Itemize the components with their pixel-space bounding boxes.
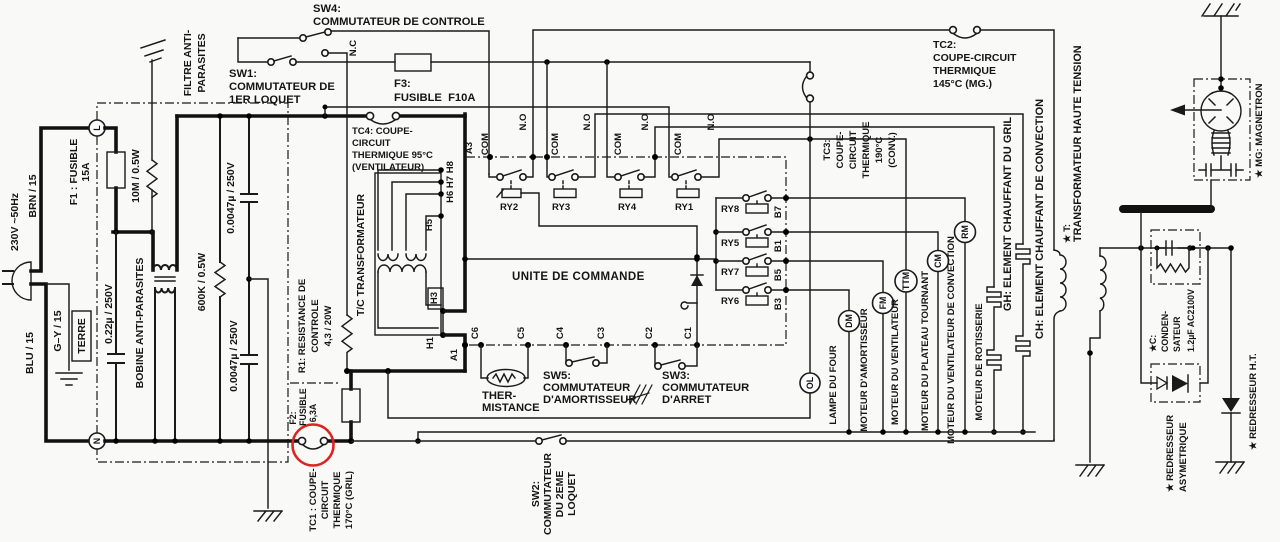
T/C internal taps H8 H7 H6 H5	[378, 170, 441, 250]
svg-text:COMMUTATEUR: COMMUTATEUR	[542, 453, 554, 535]
motor DM damper motor	[848, 332, 850, 432]
filament heavy lead	[1123, 205, 1211, 213]
svg-text:THERMIQUE 95°C: THERMIQUE 95°C	[352, 150, 433, 161]
svg-text:RY5: RY5	[721, 238, 740, 249]
svg-text:THER-: THER-	[482, 390, 516, 402]
terminal dots on unit top edge	[487, 154, 493, 160]
svg-text:R1: RESISTANCE DE: R1: RESISTANCE DE	[297, 279, 308, 373]
svg-text:TC2:: TC2:	[933, 39, 956, 51]
svg-text:6,3A: 6,3A	[308, 403, 318, 422]
relay contact RY1	[672, 139, 906, 270]
T/C secondary leads to H3 and H1	[378, 272, 441, 328]
svg-text:TTM: TTM	[901, 272, 911, 290]
relay coil RY3	[554, 189, 576, 198]
svg-text:G–Y / 15: G–Y / 15	[52, 310, 64, 351]
svg-text:N.O: N.O	[582, 114, 593, 131]
terminal A1	[462, 342, 468, 348]
ground bottom center	[254, 511, 282, 521]
fuse F2 6.3A vertical	[349, 371, 353, 441]
TC4 thermal cutout 95C in top bus	[366, 112, 399, 124]
svg-text:C5: C5	[516, 326, 527, 339]
TC3 thermal cutout 190C	[809, 62, 811, 72]
svg-text:CIRCUIT: CIRCUIT	[320, 481, 331, 520]
relay coil RY8	[746, 204, 768, 213]
motor CM convection fan motor	[937, 272, 939, 432]
svg-text:UNITE DE COMMANDE: UNITE DE COMMANDE	[512, 271, 645, 283]
terminal H5	[438, 213, 444, 219]
label TERRE boxed	[72, 311, 91, 361]
ground near SW5	[627, 385, 652, 404]
svg-text:FUSIBLE: FUSIBLE	[298, 388, 308, 426]
relay contact RY3	[547, 62, 1023, 244]
svg-text:TERRE: TERRE	[76, 318, 88, 354]
svg-text:COMMUTATEUR DE CONTROLE: COMMUTATEUR DE CONTROLE	[313, 16, 485, 28]
svg-text:RY3: RY3	[552, 202, 570, 213]
svg-text:TRANSFORMATEUR HAUTE TENSION: TRANSFORMATEUR HAUTE TENSION	[1072, 45, 1084, 242]
switch SW4 (control switch)	[238, 29, 489, 174]
resistor 600K / 0.5W	[219, 116, 221, 441]
svg-text:FUSIBLE F10A: FUSIBLE F10A	[394, 92, 475, 104]
svg-text:C2: C2	[644, 327, 655, 339]
svg-text:LOQUET: LOQUET	[566, 472, 578, 516]
svg-text:0.0047µ / 250V: 0.0047µ / 250V	[225, 162, 237, 233]
B relay left bus	[715, 198, 717, 290]
svg-text:TC4: COUPE-: TC4: COUPE-	[352, 126, 413, 137]
svg-text:D'AMORTISSEUR: D'AMORTISSEUR	[543, 394, 636, 406]
svg-text:145°C (MG.): 145°C (MG.)	[933, 78, 992, 90]
terminal L	[89, 120, 105, 136]
capacitor 0.22u/250V	[115, 232, 117, 441]
capacitor C symbol	[1157, 241, 1193, 255]
filtre anti-parasites enclosure (dash-dot box)	[97, 103, 288, 462]
svg-text:RY7: RY7	[721, 267, 739, 278]
svg-text:RY1: RY1	[675, 202, 694, 213]
svg-text:F1 : FUSIBLE: F1 : FUSIBLE	[68, 139, 80, 206]
relay coil RY5	[746, 238, 768, 247]
svg-text:BLU / 15: BLU / 15	[24, 332, 36, 374]
motor TTM turntable motor	[905, 292, 907, 432]
svg-text:MOTEUR DU PLATEAU TOURNANT: MOTEUR DU PLATEAU TOURNANT	[920, 271, 931, 431]
relay coil RY4	[620, 189, 642, 198]
svg-text:F3:: F3:	[394, 78, 411, 90]
svg-text:190°C: 190°C	[874, 137, 885, 164]
svg-text:COUPE-CIRCUIT: COUPE-CIRCUIT	[933, 52, 1017, 64]
ground TERRE	[56, 373, 82, 385]
svg-text:SW1:: SW1:	[229, 68, 257, 80]
bleeder resistor inside C box	[1157, 248, 1189, 272]
feed line y259 to B relays	[465, 258, 716, 260]
svg-text:COUPE-: COUPE-	[835, 132, 846, 169]
svg-text:C4: C4	[555, 326, 566, 339]
asymmetric rectifier diodes	[1157, 377, 1167, 389]
HV transformer T primary winding	[1054, 250, 1066, 311]
svg-text:LAMPE DU FOUR: LAMPE DU FOUR	[828, 345, 839, 424]
relay contact RY2	[489, 30, 950, 189]
svg-text:10M / 0.5W: 10M / 0.5W	[130, 149, 142, 203]
svg-text:RY8: RY8	[721, 204, 739, 215]
svg-text:F2:: F2:	[288, 411, 298, 424]
capacitor 0.0047u/250V upper	[248, 116, 250, 441]
svg-text:★ MG: MAGNETRON: ★ MG: MAGNETRON	[1254, 83, 1265, 178]
svg-text:H1: H1	[425, 336, 436, 349]
magnetron MG dash-dot box	[1194, 79, 1250, 180]
svg-text:MISTANCE: MISTANCE	[482, 402, 540, 414]
terminal B5	[783, 258, 789, 264]
svg-text:L: L	[92, 125, 102, 131]
relay coil RY2	[502, 189, 521, 198]
ground under HV transformer	[1076, 465, 1104, 476]
svg-text:THERMIQUE: THERMIQUE	[861, 122, 872, 179]
lamp OL	[800, 373, 820, 393]
node on lamp line	[807, 136, 813, 142]
resistor R1 4.3/20W control resistance	[342, 315, 352, 371]
thick node bus under R1 to control unit	[347, 369, 465, 373]
svg-text:THERMIQUE: THERMIQUE	[933, 65, 996, 77]
HV line y248	[1100, 247, 1231, 249]
wire bus y107 from live bus to RY1	[325, 107, 672, 177]
svg-text:CONTROLE: CONTROLE	[310, 299, 321, 352]
relay contact RY6	[716, 283, 849, 310]
svg-text:0.0047µ / 250V: 0.0047µ / 250V	[228, 320, 240, 391]
asymmetric rectifier box	[1151, 364, 1200, 402]
svg-text:CONDEN-: CONDEN-	[1160, 311, 1170, 352]
thermistance	[481, 345, 528, 378]
lamp return wire	[388, 371, 810, 418]
motor FM fan motor	[882, 314, 884, 432]
svg-text:H6 H7 H8: H6 H7 H8	[445, 161, 456, 203]
motor RM rotisserie motor	[964, 243, 966, 432]
svg-text:TC1 : COUPE-: TC1 : COUPE-	[308, 468, 319, 531]
svg-text:C6: C6	[470, 327, 481, 339]
svg-text:COMMUTATEUR: COMMUTATEUR	[662, 382, 749, 394]
switch SW5 (damper switch)	[565, 345, 567, 363]
svg-text:SW2:: SW2:	[530, 481, 542, 507]
terminal B1	[783, 229, 789, 235]
svg-text:SW3:: SW3:	[662, 370, 690, 382]
terminal H3 boxed label	[428, 288, 443, 309]
svg-text:MOTEUR DU VENTILATEUR DE CONVE: MOTEUR DU VENTILATEUR DE CONVECTION	[946, 236, 957, 444]
svg-text:COM: COM	[673, 133, 684, 155]
svg-text:N.O: N.O	[518, 114, 529, 131]
thick bus top (switched live) y116	[177, 114, 465, 118]
wire to bottom ground from node	[246, 276, 252, 282]
svg-text:4,3 / 20W: 4,3 / 20W	[323, 306, 334, 347]
svg-text:H5: H5	[424, 218, 435, 231]
svg-text:RM: RM	[960, 225, 970, 239]
svg-text:C3: C3	[596, 327, 607, 339]
SW4 N.C contact	[322, 50, 328, 56]
svg-text:15A: 15A	[80, 162, 92, 182]
svg-text:600K / 0.5W: 600K / 0.5W	[196, 253, 208, 311]
svg-text:BOBINE ANTI-PARASITES: BOBINE ANTI-PARASITES	[134, 258, 146, 389]
svg-text:CIRCUIT: CIRCUIT	[848, 131, 859, 170]
HV transformer T secondary winding	[1100, 256, 1106, 311]
capacitor 0.0047u/250V lower	[241, 355, 257, 364]
svg-text:BRN / 15: BRN / 15	[27, 174, 39, 217]
svg-text:★C:: ★C:	[1148, 335, 1158, 352]
svg-text:MOTEUR D'AMORTISSEUR: MOTEUR D'AMORTISSEUR	[859, 308, 870, 431]
svg-text:170°C (GRIL): 170°C (GRIL)	[344, 471, 355, 529]
junction bar under F1	[113, 230, 152, 234]
svg-text:OL: OL	[805, 376, 815, 389]
svg-text:FM: FM	[878, 297, 888, 310]
svg-text:0.22µ / 250V: 0.22µ / 250V	[103, 284, 115, 344]
switch SW2 (2nd latch switch)	[536, 438, 542, 444]
T/C windings primary	[378, 254, 426, 261]
svg-text:CH: ELEMENT CHAUFFANT DE CONVE: CH: ELEMENT CHAUFFANT DE CONVECTION	[1034, 99, 1046, 339]
svg-text:COM: COM	[613, 133, 624, 155]
thick bus bottom (neutral) y441	[105, 439, 352, 443]
terminal N	[89, 433, 105, 449]
terminal B7	[783, 195, 789, 201]
heating element GH (grill)	[987, 287, 1001, 432]
svg-text:SW5:: SW5:	[543, 370, 571, 382]
svg-text:RY2: RY2	[500, 202, 518, 213]
svg-text:★ REDRESSEUR: ★ REDRESSEUR	[1165, 415, 1176, 492]
svg-text:RY4: RY4	[618, 202, 637, 213]
terminal H1	[440, 332, 446, 338]
C-row terminals	[462, 342, 468, 348]
relay contact RY8	[716, 191, 965, 221]
relay contact RY5	[716, 225, 938, 250]
svg-text:N: N	[92, 438, 102, 444]
magnetron tube symbol	[1201, 91, 1241, 131]
diode in control unit	[696, 257, 698, 343]
antenna arrow	[1184, 109, 1221, 111]
svg-text:N.O: N.O	[706, 114, 717, 131]
svg-text:CIRCUIT: CIRCUIT	[352, 138, 391, 149]
motor return bus	[418, 432, 1035, 441]
resistor 10M / 0.5W	[151, 60, 153, 232]
svg-text:T/C TRANSFORMATEUR: T/C TRANSFORMATEUR	[355, 193, 367, 316]
svg-text:GH: ELEMENT CHAUFFANT DU GRIL: GH: ELEMENT CHAUFFANT DU GRIL	[1002, 117, 1014, 312]
svg-text:CM: CM	[933, 254, 943, 268]
svg-text:B7: B7	[773, 206, 784, 218]
heating element CH (convection)	[1016, 244, 1030, 432]
svg-text:RY6: RY6	[721, 296, 739, 307]
fuse F3 F10A	[395, 54, 431, 71]
red annotation circle around TC1	[293, 425, 334, 466]
TC1 thermal cutout 170C in neutral bus	[298, 437, 327, 449]
relay coil RY7	[746, 267, 768, 276]
relay contact RY7	[716, 254, 883, 292]
wire N blue from plug to terminal N	[31, 284, 89, 441]
relay coil RY6	[746, 296, 768, 305]
terminal B3	[783, 287, 789, 293]
svg-text:(CONV.): (CONV.)	[887, 132, 898, 168]
HT rectifier diode	[1230, 248, 1232, 462]
svg-text:MOTEUR DU VENTILATEUR: MOTEUR DU VENTILATEUR	[890, 299, 901, 425]
switch SW1 (1st latch switch)	[238, 38, 395, 65]
svg-text:COMMUTATEUR: COMMUTATEUR	[543, 382, 630, 394]
control unit thick left edge with H3/H1 connections	[445, 114, 465, 371]
switch SW3 (stop switch)	[654, 345, 656, 366]
wire TC2 to HV transformer	[980, 30, 1054, 250]
svg-text:1ER LOQUET: 1ER LOQUET	[229, 94, 301, 106]
svg-text:TC3:: TC3:	[822, 139, 833, 160]
wire L brown from plug to terminal L	[31, 128, 89, 271]
transformer T/C box	[375, 173, 441, 335]
svg-text:230V ~50Hz: 230V ~50Hz	[9, 193, 21, 251]
ground under HT rectifier	[1216, 462, 1244, 473]
ground above 10M resistor	[141, 40, 165, 62]
svg-text:SATEUR: SATEUR	[1172, 316, 1182, 352]
lamp feed wire down to OL	[809, 139, 811, 372]
svg-text:B3: B3	[773, 298, 784, 310]
svg-text:C1: C1	[683, 326, 694, 339]
svg-text:1.2µF AC2100V: 1.2µF AC2100V	[1186, 289, 1196, 352]
unite de commande enclosure dash-dot	[466, 157, 786, 345]
svg-text:A1: A1	[449, 348, 460, 361]
terminals H6 H7 H8	[438, 167, 444, 173]
svg-text:THERMIQUE: THERMIQUE	[332, 472, 343, 529]
svg-text:ASYMETRIQUE: ASYMETRIQUE	[1178, 422, 1189, 492]
T/C windings secondary	[378, 265, 426, 272]
svg-text:COM: COM	[550, 133, 561, 155]
svg-text:★ REDRESSEUR H.T.: ★ REDRESSEUR H.T.	[1248, 353, 1259, 450]
magnetron filament	[1212, 131, 1230, 155]
bobine anti-parasites (common mode choke)	[153, 116, 177, 441]
svg-text:DU 2EME: DU 2EME	[554, 471, 566, 518]
dash-dot stub left of R1 label	[290, 382, 341, 384]
svg-text:H3: H3	[429, 292, 440, 304]
neutral thin line with SW2	[352, 440, 536, 442]
svg-text:N.C: N.C	[348, 40, 359, 57]
ground top right	[1202, 4, 1240, 16]
plug (mains connector)	[3, 262, 31, 300]
svg-text:MOTEUR DE ROTISSERIE: MOTEUR DE ROTISSERIE	[974, 303, 985, 420]
svg-text:(VENTILATEUR): (VENTILATEUR)	[352, 162, 424, 173]
wire earth G-Y	[46, 284, 69, 370]
TC2 thermal cutout 145C	[950, 27, 957, 34]
svg-text:N.O: N.O	[640, 114, 651, 131]
svg-text:A3: A3	[464, 142, 475, 154]
svg-text:DM: DM	[844, 314, 854, 328]
svg-text:FILTRE ANTI-: FILTRE ANTI-	[182, 29, 194, 96]
svg-text:B1: B1	[773, 239, 784, 252]
svg-text:COM: COM	[480, 133, 491, 155]
svg-text:D'ARRET: D'ARRET	[662, 394, 711, 406]
wire ground to magnetron	[1220, 16, 1222, 91]
svg-text:COMMUTATEUR DE: COMMUTATEUR DE	[229, 81, 335, 93]
RY2 coil wire to diode node	[521, 193, 697, 257]
capacitor box C 1.2uF dash-dot	[1151, 230, 1200, 284]
svg-text:PARASITES: PARASITES	[196, 33, 208, 92]
relay contact RY4	[607, 62, 994, 287]
inductor hook on C1 line	[681, 302, 697, 309]
svg-text:B5: B5	[773, 268, 784, 281]
fuse F1 15A	[105, 128, 116, 232]
relay coil RY1	[677, 189, 699, 198]
svg-text:SW4:: SW4:	[313, 3, 341, 15]
